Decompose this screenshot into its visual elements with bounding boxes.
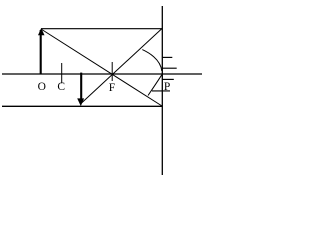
tick mark at C (centre of curvature): [61, 63, 63, 83]
principal axis (horizontal line through O C F P): [2, 73, 202, 75]
concave mirror surface arc through pole P (lower part): [148, 75, 162, 96]
diagonal ray B: object tip through F to mirror bottom: [41, 29, 162, 106]
image arrowhead (down): [77, 98, 84, 106]
bottom tick crossing mirror below P: [152, 90, 170, 92]
image arrow stem (inverted image): [80, 73, 82, 100]
lower horizontal ray (reflected ray at image tip level): [2, 105, 163, 107]
middle right tick behind mirror: [162, 67, 177, 69]
object arrowhead (up): [38, 28, 45, 35]
svg-text:O: O: [38, 81, 46, 93]
lower right tick behind mirror (under P): [162, 78, 174, 80]
top horizontal ray (incident ray from object tip, parallel to axis): [41, 28, 163, 30]
mirror plane vertical line: [161, 6, 163, 175]
diagonal ray A: mirror top through F down to image tip: [81, 29, 162, 104]
upper right tick behind mirror: [162, 56, 172, 58]
tick mark at F (focus): [111, 62, 113, 81]
concave mirror surface arc through pole P (upper part): [142, 50, 162, 71]
svg-text:C: C: [57, 81, 65, 93]
object arrow stem at O: [40, 30, 42, 75]
svg-text:P: P: [164, 81, 170, 93]
svg-text:F: F: [109, 82, 115, 94]
